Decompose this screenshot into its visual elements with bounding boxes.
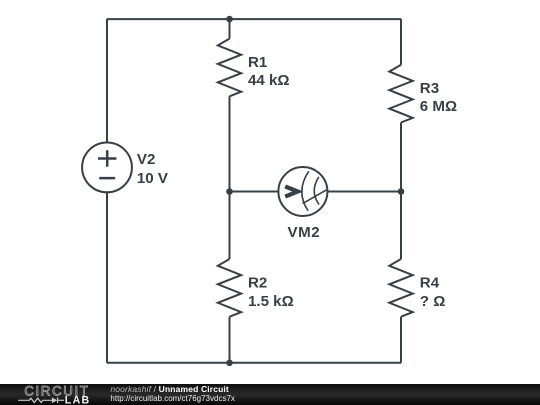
- svg-text:R3: R3: [420, 80, 439, 97]
- resistor R2: [218, 259, 241, 317]
- svg-text:LAB: LAB: [65, 394, 91, 405]
- svg-text:V2: V2: [137, 151, 155, 168]
- resistor R3: [389, 65, 412, 123]
- wire: middle branch between R1 and R2: [229, 96, 231, 259]
- voltage source V2: [82, 143, 132, 193]
- circuitlab logo: [0, 384, 100, 405]
- footer bar: [0, 384, 540, 405]
- junction node: top rail / R1: [226, 16, 233, 23]
- wire: R3 top lead: [400, 19, 402, 65]
- wire: R1 top lead: [229, 19, 231, 38]
- wire: top rail from V2 to R3: [107, 18, 401, 20]
- svg-text:? Ω: ? Ω: [420, 293, 446, 310]
- svg-text:R4: R4: [420, 274, 440, 291]
- svg-text:VM2: VM2: [287, 224, 320, 241]
- junction node: middle branch / voltmeter wire: [226, 188, 233, 195]
- svg-text:44 kΩ: 44 kΩ: [248, 72, 289, 89]
- wire: R4 bottom lead: [400, 317, 402, 363]
- svg-text:1.5 kΩ: 1.5 kΩ: [248, 293, 294, 310]
- resistor R1: [218, 39, 241, 97]
- svg-text:R2: R2: [248, 274, 267, 291]
- voltmeter VM2: [278, 167, 327, 216]
- wire: bottom rail: [107, 362, 401, 364]
- footer text line 1: [110, 384, 229, 394]
- junction node: right branch / voltmeter wire: [398, 188, 405, 195]
- footer text line 2: [110, 394, 235, 404]
- svg-text:6 MΩ: 6 MΩ: [420, 98, 457, 115]
- wire: middle run through voltmeter: [230, 191, 402, 193]
- wire: left branch (V2 leads): [106, 19, 108, 363]
- wire: right branch between R3 and R4: [400, 123, 402, 260]
- svg-text:10 V: 10 V: [137, 170, 168, 187]
- resistor R4: [389, 259, 412, 317]
- svg-text:R1: R1: [248, 54, 267, 71]
- wire: R2 bottom lead: [229, 317, 231, 363]
- junction node: bottom rail / R2: [226, 360, 233, 367]
